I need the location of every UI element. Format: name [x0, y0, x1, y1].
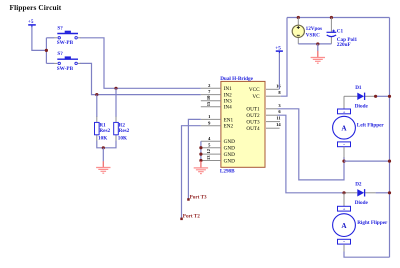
svg-text:C1: C1 — [337, 28, 344, 34]
svg-text:11: 11 — [276, 116, 281, 121]
wire to switch S1 left — [46, 37, 54, 39]
svg-text:A: A — [341, 222, 347, 230]
svg-text:Res2: Res2 — [119, 128, 130, 134]
U1 pin 5 GND — [201, 142, 235, 151]
node junction IN2 row / R1 branch — [95, 93, 98, 96]
ground (source) — [311, 51, 325, 63]
U1 pin 9 EN2 — [201, 120, 234, 129]
node junction gnd pin13 — [199, 159, 202, 162]
switch S1 (SW-PB) — [54, 26, 81, 46]
svg-text:10: 10 — [206, 95, 211, 100]
wire vertical between switch rows — [45, 38, 47, 64]
voltage source VSRC 12Vpos — [292, 18, 322, 44]
svg-text:Left Flipper: Left Flipper — [357, 122, 385, 128]
svg-text:14: 14 — [276, 122, 281, 127]
node junction bottom gnd — [316, 42, 319, 45]
op IC U? L298B dual H-bridge — [220, 76, 265, 174]
svg-text:+: + — [343, 109, 346, 114]
svg-text:EN1: EN1 — [224, 117, 234, 123]
U1 pin 12 GND — [201, 148, 235, 158]
capacitor C1 — [327, 18, 358, 49]
svg-text:GND: GND — [224, 146, 235, 152]
wire EN1 to port T3 — [188, 119, 200, 199]
node junction resistor gnd — [102, 146, 105, 149]
svg-text:Port T3: Port T3 — [190, 195, 207, 201]
node junction D2/rail — [388, 191, 391, 194]
svg-text:GND: GND — [224, 158, 235, 164]
svg-text:Port T2: Port T2 — [183, 214, 200, 220]
wire to switch S2 left — [46, 62, 54, 64]
wire top 12V rail — [287, 17, 390, 19]
svg-text:10K: 10K — [98, 136, 107, 142]
wire right rail down — [389, 18, 391, 258]
power port +5 (at VCC) — [275, 45, 283, 53]
svg-text:IN1: IN1 — [224, 86, 232, 92]
svg-text:OUT2: OUT2 — [246, 113, 260, 119]
diode D1 — [344, 85, 376, 110]
wire right flipper plus stub — [343, 193, 345, 207]
switch S2 (SW-PB) — [54, 51, 81, 72]
node junction left motor minus — [342, 160, 345, 163]
motor left flipper — [333, 109, 385, 158]
U1 pin 1 EN1 — [201, 114, 234, 123]
svg-text:VSRC: VSRC — [306, 32, 320, 38]
svg-text:IN4: IN4 — [224, 105, 232, 111]
resistor R2 — [114, 117, 130, 142]
wire D2 cathode to rail — [376, 192, 390, 194]
svg-text:IN2: IN2 — [224, 93, 232, 99]
svg-text:Right Flipper: Right Flipper — [357, 220, 388, 226]
U1 pin 13 GND — [201, 155, 235, 165]
node junction gnd pin12 — [199, 153, 202, 156]
svg-text:10K: 10K — [118, 136, 127, 142]
svg-text:S?: S? — [57, 51, 63, 57]
U1 pin 15 IN4 — [201, 101, 232, 111]
wire OUT2 pin6 down to D2 row — [278, 115, 345, 193]
wire down to gnd — [102, 148, 104, 162]
U1 pin 4 GND — [201, 136, 235, 145]
svg-text:OUT4: OUT4 — [246, 126, 260, 132]
svg-text:SW-PB: SW-PB — [57, 40, 74, 46]
motor right flipper — [333, 206, 388, 252]
node junction at +5 feed — [45, 49, 48, 52]
U1 pin 7 IN2 — [201, 89, 232, 98]
wire VC pin8 up to 12V rail — [281, 18, 287, 97]
wire source to cap bottom — [298, 43, 331, 45]
node junction D1 cathode — [374, 95, 377, 98]
U1 pin 14 OUT4 — [246, 122, 281, 132]
U1 pin 16 VCC — [249, 83, 281, 93]
node junction D2 anode — [342, 191, 345, 194]
diode D2 — [344, 181, 376, 206]
wire left flipper plus up to D1 row — [343, 96, 345, 109]
svg-text:12Vpos: 12Vpos — [306, 26, 322, 32]
svg-text:13: 13 — [206, 155, 211, 160]
U1 pin 6 OUT2 — [246, 109, 281, 119]
svg-text:L298B: L298B — [220, 169, 235, 175]
ground (chip GND) — [194, 161, 208, 174]
ground (below resistors) — [96, 161, 110, 173]
svg-text:12: 12 — [206, 148, 211, 153]
wire motor minus to rail — [344, 160, 390, 162]
node junction D1/rail — [388, 95, 391, 98]
svg-text:S?: S? — [57, 26, 63, 32]
wire +5 to VCC pin16 — [278, 53, 280, 89]
power port +5 (left) — [28, 19, 36, 27]
wire right flipper bottom loop to rail — [344, 252, 390, 258]
wire R1 branch down — [96, 95, 98, 117]
node junction rail y161 — [388, 160, 391, 163]
port T3 — [187, 195, 207, 201]
wire +5 down and to junction — [32, 27, 47, 50]
svg-text:Diode: Diode — [355, 200, 369, 206]
svg-text:220uF: 220uF — [337, 42, 351, 48]
svg-text:16: 16 — [276, 83, 281, 88]
wire stub to gnd — [317, 44, 319, 51]
wire GND bus — [200, 141, 202, 161]
svg-text:15: 15 — [206, 101, 211, 106]
U1 pin 8 VC — [252, 90, 281, 100]
wire D1 cathode to rail — [376, 95, 390, 97]
wire R2 branch down — [115, 88, 117, 117]
svg-text:+: + — [343, 207, 346, 212]
svg-text:OUT1: OUT1 — [246, 107, 260, 113]
wire switch S1 right to IN1 column — [80, 38, 201, 89]
U1 pin 2 IN1 — [201, 83, 232, 92]
svg-text:IN3: IN3 — [224, 99, 232, 105]
svg-text:A: A — [341, 124, 347, 132]
wire EN2 to port T2 — [182, 126, 201, 219]
svg-text:D1: D1 — [355, 85, 362, 91]
svg-text:OUT3: OUT3 — [246, 120, 260, 126]
node junction gnd pin5 — [199, 146, 202, 149]
svg-text:VC: VC — [252, 94, 260, 100]
svg-text:GND: GND — [224, 152, 235, 158]
U1 pin 10 IN3 — [201, 95, 232, 105]
U1 pin 3 OUT1 — [246, 103, 281, 113]
svg-text:SW-PB: SW-PB — [57, 66, 74, 72]
svg-text:Res2: Res2 — [99, 128, 110, 134]
node junction rail/source — [297, 16, 300, 19]
svg-text:VCC: VCC — [249, 87, 260, 93]
resistor R1 — [95, 117, 111, 142]
node junction rail/cap — [330, 16, 333, 19]
node junction IN1 row / R2 branch — [114, 87, 117, 90]
wire resistor bottoms joined — [97, 141, 116, 148]
svg-text:Flippers Circuit: Flippers Circuit — [10, 3, 62, 12]
wire switch S2 right to IN2 column — [80, 63, 201, 94]
port T2 — [180, 214, 200, 221]
svg-text:Diode: Diode — [355, 104, 369, 110]
U1 pin 11 OUT3 — [246, 116, 281, 126]
svg-text:D2: D2 — [355, 181, 362, 187]
svg-text:EN2: EN2 — [224, 124, 234, 130]
wire OUT1 pin3 to left flipper minus loop — [278, 109, 345, 180]
svg-text:GND: GND — [224, 139, 235, 145]
